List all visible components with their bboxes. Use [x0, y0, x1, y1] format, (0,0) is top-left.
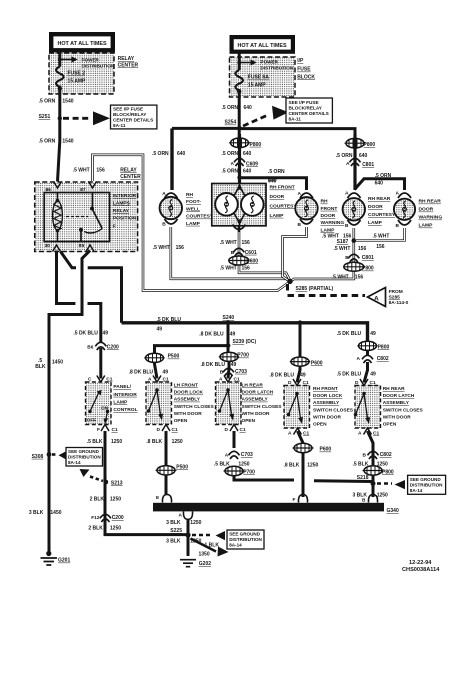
svg-text:85: 85: [79, 243, 85, 249]
svg-text:PANEL/: PANEL/: [113, 384, 131, 390]
terminal A (RH rear courtesy lamp): [348, 193, 361, 198]
label .5 WHT 156: [322, 234, 352, 240]
connector P700 (ground side): [224, 466, 245, 475]
fuse 6A label: [248, 75, 270, 89]
svg-text:A: A: [148, 377, 152, 383]
svg-text:SWITCH CLOSES: SWITCH CLOSES: [383, 407, 424, 413]
RH rear door latch assembly switch: [355, 386, 381, 429]
wire: P800 to C801: [353, 134, 356, 190]
svg-text:C200: C200: [112, 515, 124, 521]
svg-text:1450: 1450: [50, 510, 61, 516]
label .5 WHT 156: [334, 246, 367, 252]
svg-text:P500: P500: [168, 354, 180, 360]
svg-text:A: A: [374, 295, 379, 302]
connector P800 (ground side): [344, 262, 364, 271]
svg-text:POWER: POWER: [82, 57, 100, 62]
svg-text:B: B: [162, 222, 166, 228]
svg-text:1540: 1540: [62, 99, 73, 105]
node: fuse output junction: [237, 89, 241, 93]
see reference box (I/P fuse block details, left): [111, 105, 157, 129]
dashed reference from S225: [192, 534, 213, 537]
wire: warning lamp B to S187: [356, 228, 405, 241]
wire: relay 30 output branch B (to S240 line): [61, 252, 122, 323]
svg-text:8A-14: 8A-14: [68, 460, 81, 465]
RH front door courtesy lamp assembly box: [212, 184, 266, 226]
svg-text:1 BLK: 1 BLK: [205, 543, 220, 549]
svg-text:F12: F12: [91, 515, 100, 521]
svg-text:POWER: POWER: [261, 59, 279, 64]
label 3 BLK 1250: [166, 520, 202, 526]
connector P600 (door boot): [229, 256, 249, 265]
svg-text:.5 DK BLU: .5 DK BLU: [73, 330, 98, 336]
svg-text:FUSE 2: FUSE 2: [68, 71, 86, 77]
lamp: RH footwell courtesy lamp: [160, 197, 182, 219]
svg-text:OPEN: OPEN: [313, 422, 327, 428]
see reference box (I/P fuse block details, middle): [286, 98, 332, 123]
svg-text:.5 ORN: .5 ORN: [375, 173, 392, 179]
svg-text:OPEN: OPEN: [174, 418, 188, 424]
svg-text:.5 WHT: .5 WHT: [334, 246, 351, 252]
svg-text:RH REAR: RH REAR: [419, 199, 442, 205]
arrow to see-reference: [93, 111, 110, 125]
wire: branch to RH front door warning lamp: [240, 178, 307, 190]
svg-text:C802: C802: [380, 452, 392, 458]
svg-text:DISTRIBUTION: DISTRIBUTION: [82, 64, 115, 69]
svg-text:SEE I/P FUSE: SEE I/P FUSE: [113, 107, 143, 112]
svg-text:SWITCH CLOSES: SWITCH CLOSES: [242, 404, 283, 410]
svg-text:LAMP: LAMP: [186, 221, 201, 227]
svg-text:C1: C1: [303, 380, 309, 386]
svg-text:1250: 1250: [307, 463, 318, 469]
arrow to ground dist box: [216, 531, 226, 540]
svg-text:C703: C703: [235, 369, 247, 375]
svg-text:DOOR LATCH: DOOR LATCH: [242, 390, 274, 396]
svg-text:P700: P700: [237, 353, 249, 359]
svg-text:WITH DOOR: WITH DOOR: [242, 411, 271, 417]
svg-text:C1: C1: [240, 427, 246, 433]
wire: branch to P600: [299, 323, 302, 357]
svg-text:.5 WHT: .5 WHT: [220, 266, 237, 272]
svg-text:RH REAR: RH REAR: [368, 196, 391, 202]
connector C802 (feed): [362, 355, 373, 359]
terminal B on bus: [368, 495, 377, 503]
svg-text:ASSEMBLY: ASSEMBLY: [174, 397, 201, 403]
connector P800 (RH front door feed): [229, 138, 250, 148]
label .5 WHT 156: [332, 275, 364, 281]
svg-text:49: 49: [231, 362, 237, 368]
svg-text:OPEN: OPEN: [242, 418, 256, 424]
dashed reference from S251: [63, 117, 90, 120]
svg-text:8A-14: 8A-14: [410, 488, 423, 493]
svg-text:ON: ON: [101, 405, 109, 411]
svg-text:.5 WHT: .5 WHT: [153, 245, 170, 251]
svg-text:.5 ORN: .5 ORN: [152, 151, 169, 157]
label 2 BLK 1250: [88, 525, 121, 531]
svg-text:COURTESY: COURTESY: [368, 212, 396, 218]
wire: LH front switch to bus: [165, 431, 168, 495]
svg-text:640: 640: [243, 168, 252, 174]
svg-text:HOT AT ALL TIMES: HOT AT ALL TIMES: [237, 43, 287, 49]
wire: LH rear switch to S218: [233, 431, 236, 448]
twin lamp interconnect (bottom): [234, 213, 245, 226]
svg-text:15 AMP: 15 AMP: [248, 83, 267, 89]
svg-text:I/P: I/P: [297, 58, 304, 64]
wire: RH rear switch to bus: [368, 431, 374, 497]
terminal 87: [89, 182, 97, 189]
svg-text:C1: C1: [234, 377, 240, 383]
svg-text:LAMP: LAMP: [321, 227, 336, 233]
svg-text:A: A: [346, 161, 350, 167]
connector P500 (LH front door, feed): [144, 353, 165, 362]
I/P fuse block box (dashed): [230, 57, 296, 97]
svg-text:ASSEMBLY: ASSEMBLY: [383, 400, 410, 406]
label .5 ORN 640: [222, 151, 252, 157]
wire: footwell lamp ground side to S285: [171, 227, 290, 281]
wire: fuse 2 output: [58, 86, 60, 182]
svg-text:.5 ORN: .5 ORN: [222, 151, 239, 157]
svg-text:87: 87: [80, 187, 86, 193]
label 2 BLK 1250: [90, 496, 122, 502]
svg-text:640: 640: [243, 151, 252, 157]
label 640 (box corner): [268, 178, 277, 184]
label RELAY CENTER: [118, 56, 139, 68]
svg-text:P800: P800: [378, 344, 390, 350]
svg-text:C1: C1: [370, 380, 376, 386]
svg-text:INTERIOR: INTERIOR: [113, 193, 137, 199]
connector C609: [234, 158, 245, 162]
svg-text:S285 (PARTIAL): S285 (PARTIAL): [296, 286, 334, 292]
fuse block box (Relay Center, dashed): [49, 53, 114, 94]
svg-text:3 BLK: 3 BLK: [29, 510, 44, 516]
svg-text:LH REAR: LH REAR: [242, 383, 264, 389]
label .5 ORN 1540 (lower): [39, 138, 74, 144]
terminal B (courtesy box): [233, 225, 246, 230]
svg-text:S218: S218: [357, 475, 369, 481]
svg-text:1250: 1250: [172, 439, 183, 445]
svg-text:P600: P600: [311, 360, 323, 366]
label I/P FUSE BLOCK: [297, 58, 315, 80]
svg-text:C1: C1: [373, 431, 379, 437]
svg-text:.5 DK BLU: .5 DK BLU: [337, 331, 362, 337]
svg-text:WITH DOOR: WITH DOOR: [313, 414, 342, 420]
svg-text:HOT AT ALL TIMES: HOT AT ALL TIMES: [57, 41, 107, 47]
lamp: RH front door courtesy (left bulb): [215, 193, 238, 216]
label RELAY CENTER (inner): [120, 167, 141, 180]
svg-text:.8 DK BLU: .8 DK BLU: [129, 370, 154, 376]
connector P800 (RH rear door feed): [345, 138, 366, 148]
svg-text:LAMP: LAMP: [419, 223, 434, 229]
terminal B (RH rear courtesy lamp): [348, 220, 361, 225]
svg-text:A: A: [358, 431, 362, 437]
wire: C802 to RH rear switch: [364, 362, 368, 383]
wire: battery feed into fuse 2: [58, 53, 61, 67]
arrow to see-reference: [272, 106, 289, 120]
terminal B (RH rear warning lamp): [398, 220, 411, 225]
label .5 ORN 640 (footwell): [152, 151, 186, 157]
svg-text:49: 49: [300, 373, 306, 379]
svg-text:.5 WHT: .5 WHT: [373, 233, 390, 239]
svg-text:156: 156: [358, 246, 367, 252]
svg-text:8A-11: 8A-11: [113, 123, 126, 128]
svg-text:3 BLK: 3 BLK: [166, 538, 181, 544]
svg-text:P800: P800: [362, 266, 374, 272]
svg-text:B6: B6: [87, 344, 93, 350]
svg-text:RELAY: RELAY: [118, 56, 135, 62]
label .5 BLK / 1450 (relay coil ground): [35, 358, 63, 370]
wire: relay 85 coil ground: [49, 251, 90, 553]
svg-text:B: B: [220, 369, 224, 375]
svg-text:C1: C1: [112, 427, 118, 433]
node: branch to RH front warning lamp: [237, 175, 241, 179]
svg-text:RH: RH: [321, 199, 329, 205]
label .5 WHT 156 (relay output): [73, 168, 105, 174]
arrow: power distribution tap: [60, 59, 72, 61]
svg-text:FUSE 6A: FUSE 6A: [248, 75, 270, 81]
svg-text:SEE GROUND: SEE GROUND: [68, 449, 100, 454]
svg-text:2 BLK: 2 BLK: [90, 496, 105, 502]
svg-text:LAMP: LAMP: [113, 399, 128, 405]
svg-text:.8 BLK: .8 BLK: [284, 463, 300, 469]
svg-text:156: 156: [355, 275, 364, 281]
svg-text:A: A: [396, 191, 400, 197]
svg-text:P800: P800: [364, 142, 376, 148]
fuse 6A element: [235, 70, 243, 91]
connector C802 (ground side): [368, 451, 379, 455]
label .5 WHT 156 (footwell B): [153, 245, 184, 251]
label .8 DK BLU 49: [201, 362, 237, 368]
svg-text:CENTER: CENTER: [120, 174, 141, 180]
svg-text:G340: G340: [387, 508, 399, 514]
terminal F on bus: [298, 495, 307, 503]
svg-text:OPEN: OPEN: [383, 422, 397, 428]
svg-text:SEE GROUND: SEE GROUND: [229, 532, 261, 537]
svg-text:RH FRONT: RH FRONT: [313, 386, 338, 392]
lamp: RH front door courtesy (right bulb): [241, 193, 264, 216]
node S251: [58, 116, 62, 120]
svg-text:C1: C1: [163, 377, 169, 383]
label .5 ORN 1540 (upper): [39, 99, 74, 105]
terminal B (footwell lamp): [165, 219, 178, 224]
svg-text:49: 49: [157, 326, 163, 332]
label .5 DK BLU 49: [337, 371, 376, 377]
ground G202: [180, 560, 196, 567]
label POWER DISTRIBUTION: [261, 59, 294, 70]
lamp: RH rear door warning lamp: [394, 199, 415, 220]
dashed wire: S285 partial continuation: [288, 284, 366, 296]
wire: P800 to C802: [366, 350, 369, 356]
svg-text:C801: C801: [362, 255, 374, 261]
dashed reference from S308: [52, 453, 58, 456]
svg-text:C1: C1: [172, 427, 178, 433]
wire: battery feed into fuse 6A: [238, 54, 241, 71]
svg-text:B: B: [231, 250, 235, 256]
wire: RH front switch to bus: [298, 431, 304, 497]
ground G201: [46, 551, 51, 556]
svg-text:S285: S285: [389, 294, 401, 300]
wire: courtesy lamps ground to S285: [239, 226, 290, 281]
svg-text:SWITCH CLOSES: SWITCH CLOSES: [313, 407, 354, 413]
svg-text:S308: S308: [32, 454, 44, 460]
label 3 BLK 1450: [29, 510, 62, 516]
svg-text:S213: S213: [111, 480, 123, 486]
relay coil: [57, 193, 59, 242]
label .5 ORN / 640 (bridge): [375, 173, 392, 187]
wire: S254 branch left to footwell lamp: [172, 127, 240, 130]
label 3 BLK 1250: [166, 538, 202, 544]
node S240: [226, 320, 231, 325]
terminal A (RH rear warning lamp): [398, 193, 411, 198]
svg-text:G202: G202: [199, 561, 211, 567]
connector P600 (RH front door, feed): [290, 357, 311, 366]
svg-text:49: 49: [163, 370, 169, 376]
svg-text:2 BLK: 2 BLK: [88, 525, 103, 531]
svg-text:COURTESY: COURTESY: [270, 203, 298, 209]
svg-text:DOOR LOCK: DOOR LOCK: [174, 390, 204, 396]
label 3 BLK 1250: [353, 492, 389, 498]
wire: fuse 6A output circuit 640: [238, 89, 241, 138]
label .5 BLK 1250: [87, 439, 123, 445]
label .5 WHT / 156: [373, 233, 390, 250]
svg-text:1250: 1250: [110, 496, 121, 502]
svg-text:FROM: FROM: [389, 289, 403, 295]
svg-text:8A-14: 8A-14: [229, 543, 242, 548]
svg-text:49: 49: [230, 331, 236, 337]
terminal A (RH front warning lamp): [300, 193, 313, 198]
svg-text:SEE GROUND: SEE GROUND: [410, 477, 442, 482]
svg-text:A: A: [225, 452, 229, 458]
wire: P500 to switch: [155, 362, 158, 379]
wire: panel switch to S213/C200: [105, 431, 186, 535]
svg-text:P600: P600: [320, 447, 332, 453]
svg-text:DOOR LATCH: DOOR LATCH: [383, 393, 415, 399]
svg-text:3 BLK: 3 BLK: [166, 520, 181, 526]
wire: bridge to RH rear warning lamp: [355, 179, 405, 190]
svg-text:C200: C200: [107, 344, 119, 350]
wire: LH rear ground to S218: [234, 476, 373, 482]
terminal A (footwell lamp): [165, 193, 178, 198]
svg-text:FUSE: FUSE: [297, 67, 311, 73]
svg-text:DISTRIBUTION: DISTRIBUTION: [229, 537, 262, 542]
connector C703 (ground side): [229, 451, 240, 455]
svg-text:WARNING: WARNING: [419, 215, 443, 221]
svg-text:P700: P700: [243, 469, 255, 475]
svg-text:C703: C703: [241, 452, 253, 458]
power feed box HOT AT ALL TIMES (middle): [230, 35, 296, 54]
wire: P600 to RH front switch: [297, 366, 300, 383]
svg-text:DISTRIBUTION: DISTRIBUTION: [261, 66, 294, 71]
svg-text:156: 156: [242, 266, 251, 272]
wire: P700 to C703: [228, 361, 229, 379]
svg-text:.8 DK BLU: .8 DK BLU: [270, 373, 295, 379]
svg-text:RELAY: RELAY: [120, 167, 137, 173]
arrow: power distribution tap: [239, 62, 250, 64]
node: tap: [237, 61, 241, 65]
svg-text:B: B: [298, 222, 302, 228]
dashed reference from S254: [243, 115, 269, 127]
wire: S239 to P700: [227, 346, 230, 353]
svg-text:1250: 1250: [110, 525, 121, 531]
svg-text:D: D: [225, 427, 229, 433]
svg-text:1250: 1250: [190, 520, 201, 526]
svg-text:DOOR LOCK: DOOR LOCK: [313, 393, 343, 399]
svg-text:A: A: [219, 377, 223, 383]
svg-text:1250: 1250: [238, 462, 249, 468]
document number: [402, 560, 440, 573]
svg-text:S254: S254: [225, 120, 237, 126]
svg-text:P500: P500: [176, 464, 188, 470]
svg-text:F: F: [293, 497, 296, 503]
label .5 WHT 156: [220, 240, 250, 246]
svg-text:A: A: [357, 356, 361, 362]
svg-text:.5 WHT: .5 WHT: [73, 168, 90, 174]
svg-text:SWITCH CLOSES: SWITCH CLOSES: [174, 404, 215, 410]
wire: bus to S225/G202: [187, 519, 190, 556]
label .8 DK BLU 49: [199, 331, 235, 337]
fuse F2 label: [68, 71, 87, 85]
svg-text:CENTER DETAILS: CENTER DETAILS: [289, 111, 329, 116]
svg-text:CONTROL: CONTROL: [113, 407, 137, 413]
svg-text:156: 156: [96, 168, 105, 174]
svg-text:C609: C609: [246, 161, 258, 167]
svg-text:D: D: [288, 380, 292, 386]
connector P500 (ground side): [156, 466, 177, 475]
svg-text:.5 WHT: .5 WHT: [332, 275, 349, 281]
power feed box HOT AT ALL TIMES (left): [49, 32, 115, 53]
connector C801 (ground side): [348, 254, 359, 258]
relay switch arm: [92, 193, 94, 209]
wire: footwell lamp feed: [170, 128, 173, 190]
svg-text:C802: C802: [377, 356, 389, 362]
svg-text:POSITION: POSITION: [113, 216, 137, 222]
svg-text:49: 49: [370, 331, 376, 337]
svg-text:A: A: [298, 191, 302, 197]
svg-text:BLK: BLK: [35, 364, 46, 370]
svg-text:BLOCK/RELAY: BLOCK/RELAY: [113, 112, 147, 117]
svg-text:640: 640: [244, 105, 253, 111]
svg-text:OFF: OFF: [87, 417, 97, 423]
connector P600 (ground side): [293, 443, 314, 452]
svg-text:B: B: [396, 223, 400, 229]
svg-text:P800: P800: [382, 469, 394, 475]
svg-text:.5 ORN: .5 ORN: [39, 138, 56, 144]
label .5 DK BLU 49 (RH rear): [337, 331, 376, 337]
label .5 DK BLU 49 (dimmer branch): [73, 330, 108, 336]
wire: P800 to C609: [238, 134, 241, 184]
svg-text:DOOR: DOOR: [368, 204, 383, 210]
terminal E on bus: [162, 495, 171, 503]
lamp: RH front door warning lamp: [295, 197, 317, 219]
connector C801 (feed): [350, 158, 361, 162]
svg-text:LH FRONT: LH FRONT: [174, 383, 198, 389]
dashed reference to S213: [90, 477, 103, 482]
svg-text:640: 640: [375, 180, 384, 186]
svg-text:WARNING: WARNING: [321, 220, 345, 226]
svg-text:S251: S251: [39, 114, 51, 120]
svg-text:640: 640: [177, 151, 186, 157]
svg-text:12-22-94: 12-22-94: [409, 560, 432, 566]
svg-text:.5 ORN: .5 ORN: [268, 169, 285, 175]
svg-text:LAMP: LAMP: [270, 213, 285, 219]
connector C601: [233, 248, 244, 252]
svg-text:LAMPS: LAMPS: [113, 201, 131, 207]
svg-text:B: B: [345, 255, 349, 261]
wire: relay 30 output branch A (to dimmer switch): [57, 251, 101, 343]
connector P700 (LH rear door, feed): [219, 352, 240, 361]
svg-text:.5 ORN: .5 ORN: [39, 99, 56, 105]
svg-text:C601: C601: [245, 250, 257, 256]
dashed reference from S218: [377, 482, 392, 485]
svg-text:.5 WHT: .5 WHT: [220, 240, 237, 246]
